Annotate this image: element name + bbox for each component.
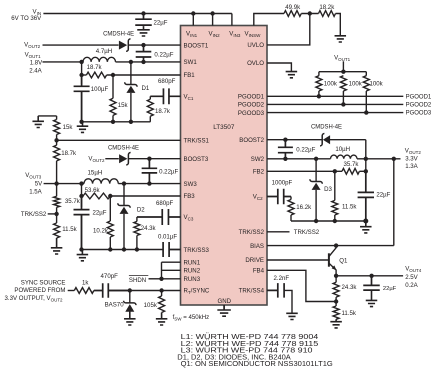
svg-text:10µH: 10µH	[335, 146, 350, 153]
svg-text:TRK/SS2: TRK/SS2	[294, 229, 320, 236]
resistor 100k PGOOD2	[340, 76, 346, 91]
junction rail3 10.2k	[108, 247, 112, 251]
wire RUN3	[162, 278, 181, 280]
svg-text:0.22µF: 0.22µF	[296, 146, 315, 153]
junction rail2 D3	[314, 219, 318, 223]
ground rail ch3	[82, 215, 164, 250]
svg-text:SW1: SW1	[184, 59, 198, 66]
wire chain top gnd	[38, 115, 56, 117]
svg-text:1000pF: 1000pF	[272, 179, 293, 186]
svg-text:22µF: 22µF	[154, 19, 168, 26]
wire SW1	[116, 61, 181, 63]
svg-text:15µH: 15µH	[88, 169, 103, 176]
resistor 24.3k FB4	[333, 282, 339, 297]
svg-text:470pF: 470pF	[101, 273, 119, 280]
svg-text:D3: D3	[324, 186, 332, 193]
capacitor 22uF input	[135, 14, 152, 27]
svg-text:BOOST2: BOOST2	[239, 137, 264, 144]
wire 11.5k fb2 top	[334, 171, 336, 200]
wire PGOOD1	[267, 95, 403, 97]
wire 10.2k bottom	[109, 237, 111, 250]
diode CMDSH-4E boost2	[267, 139, 366, 141]
svg-text:FB3: FB3	[184, 193, 196, 200]
wire VOUT2 vertical	[365, 140, 367, 190]
capacitor 470pF sync	[94, 283, 130, 298]
junction SW2 D3	[314, 157, 318, 161]
svg-text:2.5V: 2.5V	[405, 274, 418, 281]
svg-text:FB4: FB4	[253, 267, 265, 274]
resistor 18.7k FB1	[86, 72, 106, 78]
VIN3 pin stub	[231, 14, 233, 26]
wire 100k3 to PGOOD3	[365, 91, 367, 113]
wire VOUT3 line	[44, 183, 84, 185]
junction VIN rail / input cap	[141, 11, 145, 15]
svg-text:22µF: 22µF	[93, 210, 107, 217]
wire FB1 to pin	[107, 74, 181, 76]
svg-text:CMDSH-4E: CMDSH-4E	[108, 145, 139, 152]
junction FB4 divider	[334, 299, 338, 303]
svg-text:1.5A: 1.5A	[29, 189, 42, 196]
svg-text:BOOST1: BOOST1	[184, 42, 209, 49]
wire VOUT1 line	[43, 61, 84, 63]
junction rail3 cap	[79, 247, 83, 251]
capacitor 0.22uF boost3	[142, 159, 158, 184]
wire FB4 route	[267, 270, 336, 301]
wire boost3 to pin	[128, 158, 180, 160]
wire 24.3k bottom	[335, 297, 337, 306]
svg-text:BAS70: BAS70	[105, 302, 125, 309]
junction VIN rail / VIN1	[191, 11, 195, 15]
svg-text:TRK/SS1: TRK/SS1	[184, 137, 210, 144]
VIN2 pin stub	[212, 14, 214, 26]
diode CMDSH-4E boost1	[43, 44, 119, 46]
wire sync in	[68, 290, 75, 292]
wire FB3 line	[82, 195, 84, 197]
junction SW3 D2	[122, 181, 126, 185]
wire VC1 RC	[149, 96, 151, 99]
junction PGOOD1	[317, 94, 321, 98]
junction PGOOD3	[364, 110, 368, 114]
wire 100k1 to PGOOD1	[318, 91, 320, 96]
resistor 100k PGOOD3	[363, 76, 369, 91]
svg-text:100µF: 100µF	[91, 86, 109, 93]
svg-text:35.7k: 35.7k	[65, 198, 81, 205]
wire RUN1	[162, 261, 181, 263]
svg-text:22µF: 22µF	[376, 191, 390, 198]
svg-text:35.7k: 35.7k	[344, 161, 360, 168]
svg-text:18.2k: 18.2k	[319, 4, 335, 11]
svg-text:L1: WÜRTH WE-PD 744 778 9004: L1: WÜRTH WE-PD 744 778 9004	[181, 333, 319, 341]
svg-text:49.9k: 49.9k	[285, 4, 301, 11]
svg-text:15k: 15k	[63, 124, 74, 131]
resistor 24.3k VC3	[134, 221, 140, 235]
svg-text:VOUT2: VOUT2	[24, 42, 41, 50]
resistor 35.7k FB2	[342, 168, 359, 174]
junction FB2 11.5k	[333, 169, 337, 173]
VIN1 pin stub	[192, 14, 194, 26]
junction FB1 divider	[79, 73, 83, 77]
junction VOUT4 emitter	[334, 274, 338, 278]
svg-text:VOUT1: VOUT1	[25, 51, 42, 59]
ground chain top	[32, 116, 44, 128]
ground chain bottom	[51, 238, 63, 254]
wire TRK/SS2 right stub	[267, 231, 290, 233]
ground out4 cap	[366, 290, 378, 307]
junction BAS70	[128, 288, 132, 292]
wire VOUT1 to pullup rail	[342, 61, 344, 71]
ground BAS70	[124, 311, 136, 325]
svg-text:PGOOD3: PGOOD3	[238, 110, 265, 117]
junction rail2 gnd	[363, 219, 368, 224]
svg-text:PGOOD2: PGOOD2	[406, 103, 432, 109]
svg-text:RUN2: RUN2	[184, 267, 201, 274]
ground ch3	[77, 250, 89, 261]
junction BOOST2 cap	[283, 138, 287, 142]
svg-text:FB2: FB2	[253, 168, 265, 175]
svg-text:24.3k: 24.3k	[141, 225, 157, 232]
ground input cap	[137, 26, 150, 36]
capacitor 680pF VC3	[137, 209, 181, 225]
svg-text:0.22µF: 0.22µF	[154, 52, 173, 59]
svg-text:BIAS: BIAS	[250, 243, 264, 250]
svg-text:105k: 105k	[144, 302, 158, 309]
svg-text:GND: GND	[218, 298, 232, 305]
resistor 10.2k	[107, 221, 113, 237]
svg-text:11.5k: 11.5k	[342, 203, 357, 210]
svg-text:0.2A: 0.2A	[405, 282, 418, 289]
capacitor 0.01uF TRK/SS3	[163, 242, 180, 257]
pullup rail	[319, 71, 366, 73]
resistor 11.5k FB2	[332, 200, 338, 215]
svg-text:SW3: SW3	[184, 181, 198, 188]
svg-text:18.7k: 18.7k	[155, 108, 171, 115]
wire VOUT3 vertical	[81, 184, 83, 207]
diode D3	[315, 159, 317, 221]
resistor 100k PGOOD1	[316, 76, 322, 91]
transistor Q1	[328, 253, 330, 266]
junction TRK/SS2 node	[54, 212, 58, 216]
svg-text:TRK/SS2: TRK/SS2	[239, 229, 265, 236]
wire VOUT1 vertical	[81, 62, 83, 84]
svg-text:BOOST3: BOOST3	[184, 156, 209, 163]
inductor L3 15uH	[84, 179, 118, 184]
wire 35.7k right	[359, 170, 365, 172]
wire PGOOD3	[267, 112, 403, 114]
svg-text:100k: 100k	[370, 81, 384, 88]
svg-text:100k: 100k	[324, 81, 338, 88]
svg-text:PGOOD3: PGOOD3	[406, 111, 432, 117]
wire RUN bundle vertical	[161, 262, 163, 279]
junction VOUT4 cap	[369, 274, 373, 278]
svg-text:Q1: Q1	[339, 257, 348, 264]
svg-text:11.5k: 11.5k	[342, 310, 357, 317]
diode D1	[130, 62, 132, 122]
svg-text:53.6k: 53.6k	[85, 187, 101, 194]
wire VINSW stub to divider	[254, 14, 284, 26]
capacitor 0.22uF boost1	[136, 45, 152, 62]
svg-text:680pF: 680pF	[158, 78, 176, 85]
wire VOUT4 line	[336, 275, 403, 277]
wire chain gnd-15k	[56, 116, 58, 120]
ground 2.2nF	[286, 313, 298, 319]
wire 105k top	[161, 291, 163, 297]
resistor 15k chain	[54, 120, 60, 135]
svg-text:5V: 5V	[35, 181, 43, 188]
wire PGOOD2	[267, 103, 403, 105]
wire VC2 RC	[290, 197, 292, 200]
svg-text:CMDSH-4E: CMDSH-4E	[103, 30, 134, 37]
svg-text:VOUT1: VOUT1	[334, 54, 351, 62]
wire chain 18.7k-VOUT3	[56, 161, 58, 196]
ground ch1	[77, 122, 89, 133]
ground 18.2k	[335, 36, 347, 42]
svg-text:SW2: SW2	[251, 156, 265, 163]
svg-text:10.2k: 10.2k	[93, 228, 109, 235]
wire 16.2k bottom	[290, 215, 292, 221]
svg-text:UVLO: UVLO	[247, 42, 264, 49]
wire TRK/SS1	[57, 139, 181, 141]
capacitor 680pF VC1	[150, 88, 180, 104]
svg-text:VOUT2: VOUT2	[405, 147, 422, 155]
svg-text:24.3k: 24.3k	[342, 284, 358, 291]
wire 100k1 stub	[318, 72, 320, 76]
svg-text:18.7k: 18.7k	[87, 64, 103, 71]
junction TRK/SS1 node	[54, 138, 58, 142]
junction rail2 11.5k	[333, 219, 337, 223]
svg-text:6V TO 36V: 6V TO 36V	[11, 15, 42, 22]
junction VOUT1 node	[79, 60, 83, 64]
junction UVLO divider	[308, 11, 312, 15]
svg-text:LT3507: LT3507	[213, 124, 235, 131]
junction gnd rail D1	[129, 120, 133, 124]
svg-text:1.8V: 1.8V	[30, 59, 43, 66]
junction SW1 boost cap	[141, 60, 145, 64]
resistor 11.5k FB4	[333, 306, 339, 319]
diode BAS70	[129, 291, 131, 312]
wire VC1 R bottom	[149, 116, 151, 122]
svg-text:RUN3: RUN3	[184, 276, 201, 283]
wire SHDN stub	[149, 278, 162, 280]
ground 105k	[156, 313, 168, 326]
junction BIAS Q1	[334, 243, 338, 247]
wire VOUT2 line	[357, 158, 401, 160]
junction pullup rail	[341, 70, 345, 74]
junction 105k	[159, 288, 163, 292]
capacitor 100uF out1	[74, 75, 90, 122]
svg-text:100k: 100k	[349, 81, 363, 88]
svg-text:18.7k: 18.7k	[61, 150, 77, 157]
junction VOUT2 node	[364, 157, 368, 161]
svg-text:PGOOD1: PGOOD1	[238, 93, 265, 100]
svg-text:22µF: 22µF	[383, 286, 397, 292]
wire BIAS to VOUT2	[393, 159, 395, 246]
svg-text:RUN1: RUN1	[184, 259, 201, 266]
wire chain 35.7k-TRKSS2	[56, 207, 58, 223]
svg-text:OVLO: OVLO	[247, 60, 264, 67]
diode CMDSH-4E boost3	[105, 158, 119, 160]
svg-text:SYNC SOURCE: SYNC SOURCE	[21, 279, 66, 286]
capacitor 1000pF VC2	[267, 189, 291, 205]
svg-text:TRK/SS3: TRK/SS3	[184, 247, 210, 254]
wire UVLO	[267, 14, 310, 45]
svg-text:D2: D2	[137, 206, 145, 213]
svg-text:PGOOD2: PGOOD2	[238, 102, 265, 109]
junction BOOST1 cap	[141, 43, 145, 47]
junction rail3 24.3k	[135, 247, 139, 251]
svg-text:0.22µF: 0.22µF	[159, 169, 178, 176]
wire OVLO	[267, 63, 291, 72]
wire 100k2 to PGOOD2	[342, 91, 344, 104]
svg-text:PGOOD1: PGOOD1	[406, 94, 432, 100]
svg-text:11.5k: 11.5k	[62, 226, 77, 233]
svg-text:15k: 15k	[118, 102, 129, 109]
junction SW2 cap	[283, 157, 287, 161]
resistor 1k sync	[74, 288, 94, 294]
ground OVLO	[286, 72, 298, 78]
resistor 11.5k chain	[54, 223, 60, 238]
wire VC3 RC	[136, 217, 138, 221]
resistor 18.7k VC1	[147, 99, 153, 116]
wire 24.3k top	[335, 276, 337, 283]
VIN rail	[43, 13, 232, 15]
junction FB3 left	[79, 194, 83, 198]
ground IC GND	[217, 305, 231, 316]
resistor 18.2k	[319, 11, 336, 17]
wire 18.2k to ground	[336, 14, 341, 36]
wire chain 15k-node	[56, 135, 58, 146]
svg-text:Q1: ON SEMICONDUCTOR NSS30101L: Q1: ON SEMICONDUCTOR NSS30101LT1G	[181, 361, 333, 368]
wire RT/SYNC	[108, 290, 180, 292]
junction PGOOD2	[341, 102, 345, 106]
svg-text:4.7µH: 4.7µH	[96, 48, 112, 55]
resistor 16.2k VC2	[288, 200, 294, 216]
svg-text:POWERED FROM: POWERED FROM	[14, 287, 65, 294]
wire 15k bottom	[112, 115, 114, 121]
inductor L1 4.7uH	[83, 57, 116, 62]
svg-text:2.4A: 2.4A	[29, 67, 42, 74]
IC U1 LT3507 body	[181, 26, 268, 306]
wire GND pin	[223, 305, 225, 310]
capacitor 2.2nF TRK/SS4	[267, 283, 284, 298]
svg-text:VOUT2: VOUT2	[88, 156, 105, 164]
svg-text:0.01µF: 0.01µF	[158, 233, 177, 240]
junction SW3 boost cap	[147, 181, 151, 185]
junction RUN3 SHDN	[159, 277, 163, 281]
junction VOUT2 bias	[392, 157, 396, 161]
junction FB1 15k	[111, 73, 115, 77]
junction gnd rail cap	[79, 120, 83, 124]
ground ch2	[360, 221, 372, 233]
ground rail ch2	[291, 220, 366, 222]
svg-text:TRK/SS4: TRK/SS4	[239, 288, 265, 295]
resistor 49.9k	[284, 11, 301, 17]
resistor 35.7k chain	[54, 196, 60, 207]
svg-text:680pF: 680pF	[156, 200, 174, 207]
svg-text:16.2k: 16.2k	[296, 204, 312, 211]
wire 15k top	[112, 75, 114, 98]
wire SW3	[118, 183, 180, 185]
svg-text:1k: 1k	[82, 279, 89, 286]
wire 49.9k to 18.2k	[301, 13, 318, 15]
svg-text:D1: D1	[142, 85, 150, 92]
wire FB3 to pin	[110, 195, 180, 197]
svg-text:TRK/SS2: TRK/SS2	[21, 211, 47, 218]
ground rail ch1	[82, 91, 151, 122]
junction VOUT3 node	[54, 181, 58, 185]
wire RUN2	[162, 269, 181, 271]
junction BOOST3 cap	[147, 157, 151, 161]
wire 11.5k fb2 bottom	[334, 215, 336, 221]
svg-text:3.3V: 3.3V	[405, 155, 418, 162]
svg-text:VOUT3: VOUT3	[25, 172, 42, 180]
wire DRIVE	[267, 259, 328, 261]
junction gnd rail 15k	[111, 120, 115, 124]
wire VC3 R bottom	[136, 236, 138, 250]
svg-text:L3: WÜRTH WE-PD 744 778 910: L3: WÜRTH WE-PD 744 778 910	[181, 347, 313, 355]
capacitor 0.22uF boost2	[278, 140, 293, 159]
junction VIN rail / VIN2	[210, 11, 214, 15]
junction VOUT3 out node	[79, 181, 83, 185]
svg-text:SHDN: SHDN	[129, 277, 146, 284]
capacitor 22uF out2	[358, 171, 374, 221]
wire TRK/SS2 stub	[48, 213, 57, 215]
junction rail3 D2	[122, 247, 126, 251]
junction VOUT2 divider	[364, 169, 368, 173]
wire boost1 diode to pin	[128, 44, 180, 46]
junction FB3 10.2k	[108, 194, 112, 198]
svg-text:VOUT4: VOUT4	[405, 265, 422, 273]
resistor 15k FB1 lower	[110, 98, 116, 115]
resistor 53.6k FB3	[83, 193, 110, 199]
ground FB4 divider	[330, 319, 342, 328]
wire 10.2k top	[109, 196, 111, 221]
junction SW1 D1	[129, 60, 133, 64]
svg-text:fSW = 450kHz: fSW = 450kHz	[173, 314, 210, 322]
resistor 105k	[159, 296, 165, 313]
diode D2	[123, 184, 125, 250]
svg-text:DRIVE: DRIVE	[245, 257, 264, 264]
wire FB2	[267, 170, 342, 172]
capacitor 22uF out3	[74, 196, 90, 250]
resistor 18.7k chain	[54, 145, 60, 161]
wire FB1 line	[82, 74, 87, 76]
svg-text:RT/SYNC: RT/SYNC	[184, 288, 210, 296]
inductor L2 10uH	[331, 155, 358, 159]
wire BIAS	[267, 245, 394, 247]
svg-text:FB1: FB1	[184, 72, 196, 79]
wire 100k3 stub	[365, 72, 367, 76]
wire SW2	[267, 158, 331, 160]
svg-text:CMDSH-4E: CMDSH-4E	[311, 124, 342, 131]
capacitor 22uF out4	[363, 276, 380, 290]
svg-text:2.2nF: 2.2nF	[274, 275, 290, 282]
svg-text:3.3V OUTPUT, VOUT2: 3.3V OUTPUT, VOUT2	[5, 295, 64, 303]
wire 2.2nF to gnd	[284, 290, 292, 313]
svg-text:1.3A: 1.3A	[405, 163, 418, 170]
